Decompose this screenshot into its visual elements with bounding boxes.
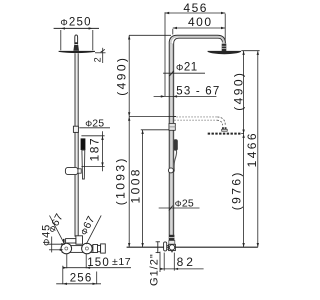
slider knob circle on riser bbox=[168, 168, 173, 173]
extension line head stem center bbox=[224, 14, 226, 41]
svg-text:400: 400 bbox=[188, 15, 213, 29]
Ø21 leader bbox=[163, 72, 205, 74]
svg-text:(1093): (1093) bbox=[113, 156, 127, 205]
shower head (front view, dark flat disc) bbox=[208, 51, 241, 54]
riser pipe (side view) bbox=[75, 53, 78, 236]
hand shower head (black, side view) bbox=[81, 138, 86, 150]
valve (front view) center block + knob bbox=[169, 244, 176, 250]
dashed lower head position bbox=[208, 133, 242, 135]
dim 82 extension lines bbox=[163, 253, 165, 271]
dim Ø250 dimension line bbox=[54, 27, 99, 29]
valve wall flange stack bbox=[93, 245, 98, 253]
svg-text:(490): (490) bbox=[232, 71, 246, 111]
dim 256 extension lines bbox=[62, 266, 64, 285]
dashed alternate arm (dotted) bbox=[177, 116, 218, 118]
extension dashed head to dim line bbox=[241, 133, 243, 135]
extension line head top right bbox=[241, 50, 259, 52]
svg-text:1466: 1466 bbox=[245, 131, 259, 167]
dim 150 line with outside arrows bbox=[63, 267, 131, 269]
Ø25 leader line (left view) bbox=[79, 127, 110, 129]
wall escutcheon (edge-on) bbox=[164, 242, 167, 251]
hand shower handle bbox=[82, 150, 85, 179]
svg-text:1008: 1008 bbox=[128, 167, 142, 203]
extension line riser center bbox=[172, 29, 174, 35]
svg-text:Φ25: Φ25 bbox=[175, 197, 194, 209]
Ø67 leader left bbox=[50, 216, 65, 245]
svg-text:53 - 67: 53 - 67 bbox=[176, 85, 220, 97]
dim line C (490)/(976) bbox=[243, 51, 245, 248]
head stem connector (dark) bbox=[222, 44, 227, 51]
wall fitting mark G1/2 bbox=[157, 241, 159, 253]
dim line A (490)/(1093) bbox=[128, 35, 130, 247]
extension line over riser at dashed arm level bbox=[169, 116, 177, 118]
riser column (front view) bbox=[169, 44, 174, 245]
extension line at dashed arm level bbox=[129, 116, 176, 118]
hand shower hose bbox=[174, 151, 177, 172]
hand shower (front view) on riser bbox=[173, 139, 177, 150]
svg-text:82: 82 bbox=[177, 255, 196, 269]
svg-text:Φ67: Φ67 bbox=[78, 214, 98, 237]
Ø45 leader bbox=[48, 243, 65, 245]
shower head disc (side view) bbox=[59, 51, 95, 53]
Ø67 leader right bbox=[86, 215, 101, 244]
riser bottom adjustment nut (dark bands) bbox=[169, 235, 174, 241]
wall holder bracket (side view) bbox=[65, 167, 78, 174]
dashed stem connector bbox=[222, 127, 224, 129]
Ø25 leader (front view) bbox=[159, 207, 200, 209]
wall plane line bbox=[164, 12, 166, 96]
dim 2 tick line bbox=[102, 48, 104, 63]
arm stem (side view capsule) bbox=[75, 35, 78, 45]
upper slide bracket on pipe bbox=[73, 126, 78, 132]
shaft to wall bbox=[167, 244, 169, 246]
G1/2 extension line bbox=[159, 252, 161, 272]
dim 256 line bbox=[56, 283, 101, 285]
svg-text:G1/2": G1/2" bbox=[149, 253, 161, 286]
svg-text:256: 256 bbox=[70, 273, 93, 285]
slide bracket (front view) bbox=[169, 123, 175, 130]
dim 187 line bbox=[102, 131, 104, 171]
left knob circle bbox=[61, 243, 72, 254]
shower arm (front view) with bends bbox=[171, 37, 224, 44]
head ball connector (side) bbox=[73, 45, 79, 51]
extension line from disc to 2-dim bbox=[95, 52, 106, 54]
dim 150 extension lines bbox=[66, 254, 68, 268]
svg-text:Φ25: Φ25 bbox=[85, 117, 104, 129]
dim 187 extension lines bbox=[81, 135, 104, 137]
dim 456 line bbox=[165, 12, 225, 14]
dim Ø250 extension lines bbox=[60, 30, 62, 50]
svg-text:150: 150 bbox=[87, 257, 110, 269]
extension line at bracket level bbox=[141, 129, 172, 131]
svg-text:Φ250: Φ250 bbox=[60, 17, 91, 29]
right knob circle bbox=[82, 243, 93, 254]
dim 400 line bbox=[173, 27, 225, 29]
diverter pull knob bbox=[66, 239, 76, 243]
svg-text:(490): (490) bbox=[114, 56, 128, 96]
dim line D 1466 bbox=[257, 51, 259, 248]
extension line at arm top level bbox=[129, 34, 171, 36]
dim 82 line with outside arrows bbox=[160, 268, 204, 270]
valve riser elbow block bbox=[76, 236, 83, 244]
valve body (side) bbox=[62, 246, 93, 253]
dim line B 1008 bbox=[142, 130, 144, 247]
svg-text:±17: ±17 bbox=[112, 256, 131, 268]
svg-text:Φ67: Φ67 bbox=[46, 211, 66, 234]
svg-text:2: 2 bbox=[92, 57, 102, 62]
svg-text:187: 187 bbox=[88, 137, 102, 162]
dim 53-67 line bbox=[154, 95, 217, 97]
svg-text:Φ21: Φ21 bbox=[176, 62, 198, 74]
valve centerline (long) bbox=[127, 246, 258, 248]
svg-text:(976): (976) bbox=[230, 170, 244, 210]
svg-text:456: 456 bbox=[183, 1, 208, 15]
